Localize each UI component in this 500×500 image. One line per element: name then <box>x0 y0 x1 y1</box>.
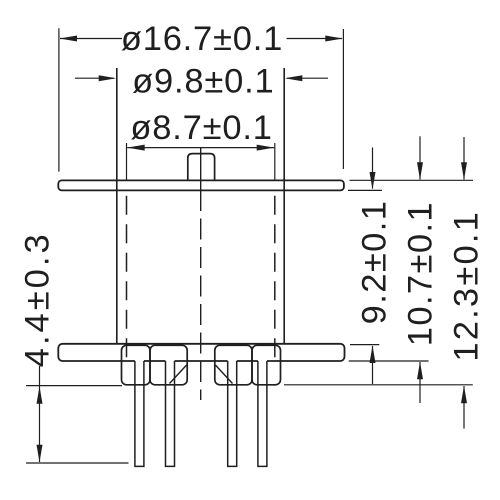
9.2 top arrow (down) <box>370 172 376 190</box>
lower flange <box>58 344 344 361</box>
10.7 top shaft <box>419 136 421 179</box>
4.4 top arrow (up) <box>37 386 43 404</box>
dim2 line left <box>75 77 114 79</box>
dim1 arrow right <box>325 36 343 42</box>
pin 1 <box>135 361 144 466</box>
svg-text:4.4±0.3: 4.4±0.3 <box>19 231 57 367</box>
4.4 dim shaft <box>39 366 41 462</box>
right ref line B flange bottom <box>348 189 382 191</box>
top tab <box>188 154 215 181</box>
bushing 2 diagonal <box>170 365 187 384</box>
right ref line C lower flange top <box>350 344 379 346</box>
bushing 3 diagonal <box>215 365 232 384</box>
10.7 bottom shaft <box>419 362 421 403</box>
arrowheads <box>37 36 468 463</box>
right ref line D lower flange bottom <box>349 360 429 362</box>
can inner wall hidden right <box>274 196 276 361</box>
centerline dashed lower <box>200 219 202 401</box>
bushing 4 <box>252 345 281 385</box>
can outer wall left <box>116 68 118 344</box>
dim1 line left <box>60 38 122 40</box>
dim1 arrow left <box>60 36 78 42</box>
dim2 arrow right (points left) <box>285 75 303 81</box>
10.7 bottom arrow (up) <box>417 362 423 380</box>
left ref bottom (pin end level) <box>26 462 129 464</box>
dim3 line <box>127 147 274 149</box>
can inner wall hidden left <box>126 196 128 361</box>
can inner wall ext right <box>274 143 276 180</box>
dim2 line right <box>287 77 328 79</box>
4.4 bottom arrow (down) <box>37 445 43 463</box>
9.2 bottom shaft <box>372 346 374 384</box>
pin gaps white-out on flange bottom edge <box>135 360 267 363</box>
right ref line E bushing bottom <box>284 384 473 386</box>
left ref top (bushing bottom level) <box>26 385 122 387</box>
12.3 bottom arrow (up) <box>461 386 467 404</box>
bushing 3 <box>215 345 252 385</box>
10.7 top arrow (down) <box>417 162 423 180</box>
svg-text:ø8.7±0.1: ø8.7±0.1 <box>130 109 272 147</box>
can outer wall right <box>283 68 285 344</box>
dim3 arrow right <box>257 145 275 151</box>
12.3 top shaft <box>463 137 465 180</box>
svg-text:10.7±0.1: 10.7±0.1 <box>402 201 440 346</box>
pin 4 <box>258 361 267 466</box>
svg-text:ø9.8±0.1: ø9.8±0.1 <box>132 62 274 100</box>
svg-text:ø16.7±0.1: ø16.7±0.1 <box>121 20 283 58</box>
pin 3 <box>228 361 237 466</box>
can inner wall ext left <box>126 143 128 180</box>
9.2 top shaft <box>372 148 374 189</box>
dim1 ext left <box>58 28 60 171</box>
dimension graphics <box>26 28 473 463</box>
bushing 2 <box>150 345 187 385</box>
dim1 ext right <box>342 29 344 169</box>
svg-text:9.2±0.1: 9.2±0.1 <box>356 200 394 325</box>
svg-text:12.3±0.1: 12.3±0.1 <box>448 210 486 362</box>
12.3 bottom shaft <box>463 386 465 429</box>
dim3 arrow left <box>127 145 145 151</box>
pin 2 <box>166 361 175 466</box>
centerline upper solid segment <box>200 148 202 211</box>
dim1 line right <box>287 38 343 40</box>
12.3 top arrow (down) <box>461 162 467 180</box>
dim2 arrow left (points right) <box>99 75 117 81</box>
top flange <box>58 180 344 190</box>
bushing 1 <box>122 345 151 385</box>
right ref line A flange top <box>350 179 474 181</box>
9.2 bottom arrow (up) <box>370 346 376 364</box>
